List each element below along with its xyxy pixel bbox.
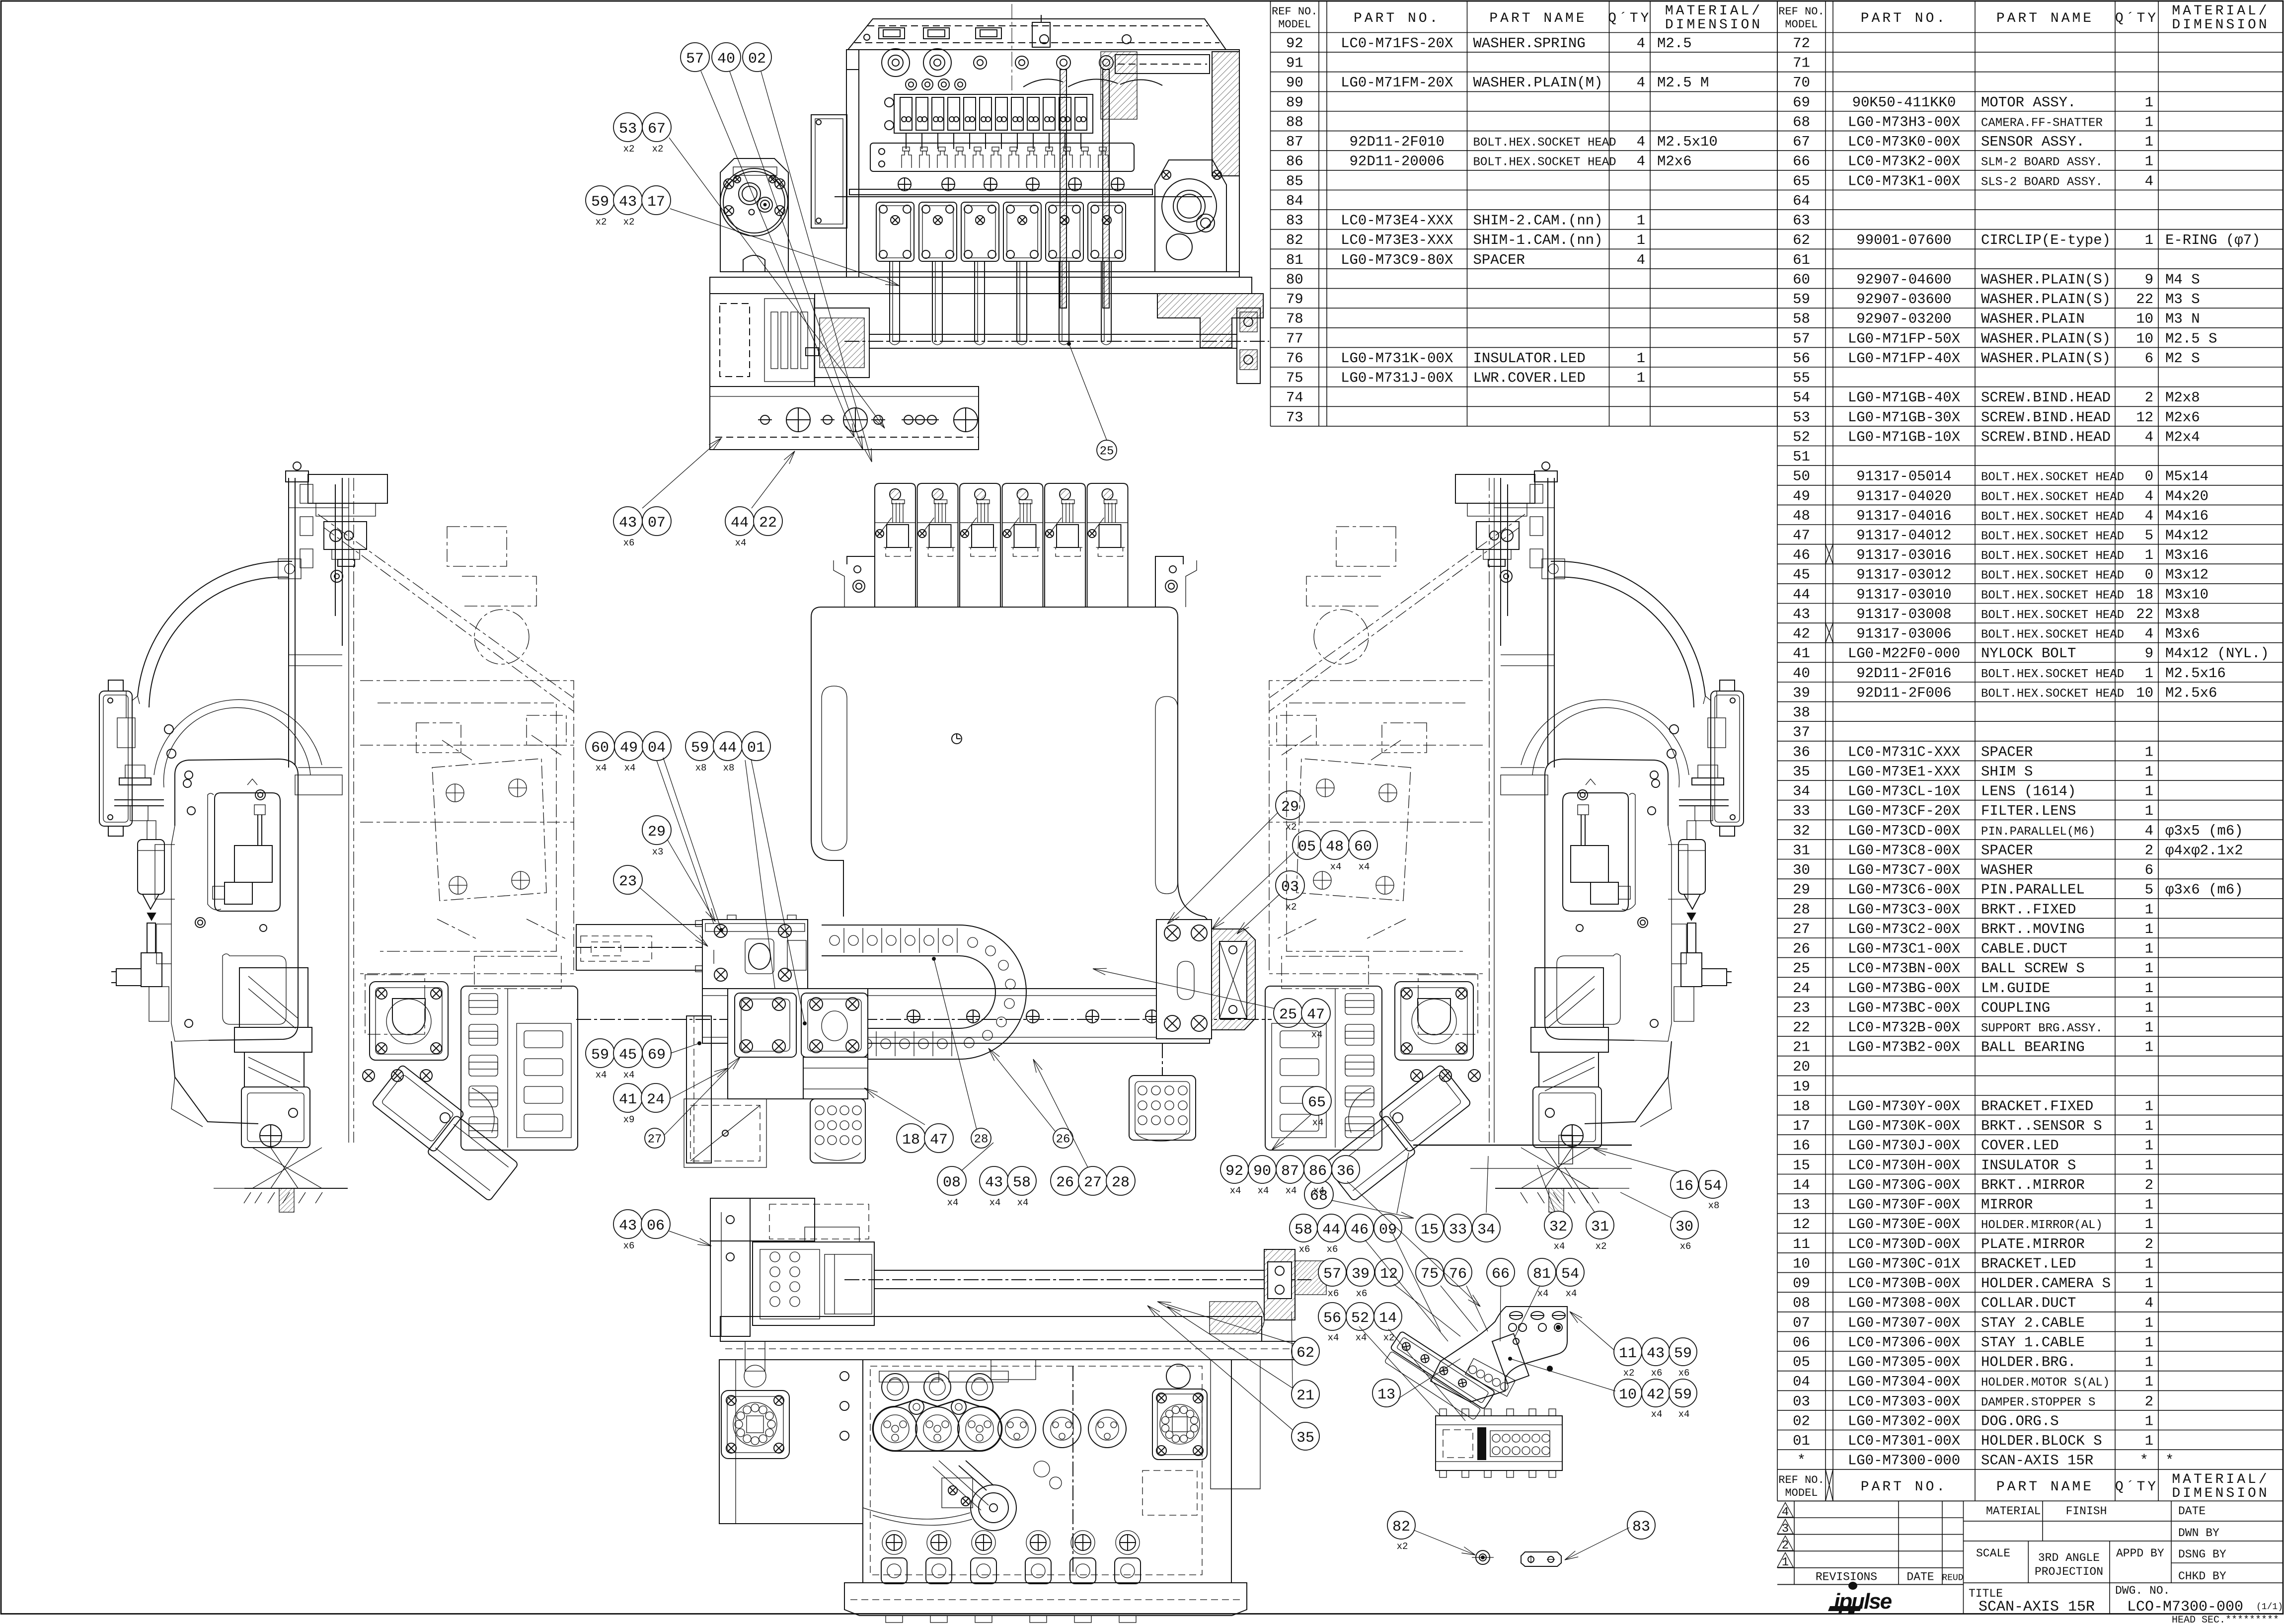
svg-text:M3x16: M3x16 — [2165, 547, 2209, 563]
svg-text:1: 1 — [2145, 134, 2153, 150]
svg-text:41: 41 — [619, 1091, 637, 1108]
svg-text:BOLT.HEX.SOCKET HEAD: BOLT.HEX.SOCKET HEAD — [1981, 490, 2124, 504]
svg-text:4: 4 — [1637, 35, 1645, 52]
svg-text:PART NO.: PART NO. — [1861, 1479, 1947, 1495]
svg-text:LG0-M73CF-20X: LG0-M73CF-20X — [1848, 803, 1960, 819]
svg-text:13: 13 — [1793, 1197, 1810, 1213]
svg-text:LG0-M73BC-00X: LG0-M73BC-00X — [1848, 1000, 1960, 1016]
svg-text:39: 39 — [1352, 1266, 1370, 1283]
svg-text:03: 03 — [1281, 879, 1299, 896]
svg-text:4: 4 — [1637, 134, 1645, 150]
svg-text:LG0-M730E-00X: LG0-M730E-00X — [1848, 1216, 1960, 1233]
svg-text:30: 30 — [1676, 1219, 1693, 1236]
main gear box — [863, 1360, 1231, 1583]
svg-text:29: 29 — [648, 824, 666, 841]
svg-text:LG0-M7300-000: LG0-M7300-000 — [1848, 1453, 1960, 1469]
svg-text:x4: x4 — [596, 1070, 607, 1081]
svg-text:91317-03012: 91317-03012 — [1856, 567, 1951, 583]
svg-text:x2: x2 — [1286, 902, 1297, 913]
svg-text:1: 1 — [1637, 232, 1645, 248]
right end bracket — [1156, 920, 1212, 1039]
svg-text:63: 63 — [1793, 213, 1810, 229]
svg-text:81: 81 — [1286, 252, 1303, 268]
svg-text:91317-03006: 91317-03006 — [1856, 626, 1951, 642]
svg-text:76: 76 — [1449, 1266, 1467, 1283]
svg-text:x9: x9 — [623, 1114, 635, 1125]
svg-text:10: 10 — [2136, 685, 2153, 701]
svg-text:LC0-M73K0-00X: LC0-M73K0-00X — [1848, 134, 1960, 150]
svg-text:65: 65 — [1793, 173, 1810, 189]
svg-text:48: 48 — [1793, 508, 1810, 524]
svg-text:BOLT.HEX.SOCKET HEAD: BOLT.HEX.SOCKET HEAD — [1981, 609, 2124, 622]
svg-text:NYLOCK BOLT: NYLOCK BOLT — [1981, 645, 2076, 662]
svg-text:x2: x2 — [1623, 1368, 1635, 1379]
svg-text:1: 1 — [2145, 783, 2153, 800]
angled mirror bar — [1382, 1331, 1495, 1421]
svg-text:45: 45 — [1793, 567, 1810, 583]
svg-text:59: 59 — [1793, 291, 1810, 308]
svg-text:70: 70 — [1793, 75, 1810, 91]
svg-text:x2: x2 — [596, 217, 607, 228]
svg-text:45: 45 — [619, 1047, 637, 1064]
svg-text:4: 4 — [1637, 75, 1645, 91]
svg-text:M4x20: M4x20 — [2165, 488, 2209, 504]
svg-text:0: 0 — [2145, 567, 2153, 583]
outer fan arc — [138, 561, 292, 696]
column lower portion / rail interface — [298, 767, 342, 768]
svg-text:4: 4 — [2145, 429, 2153, 445]
svg-text:26: 26 — [1056, 1133, 1070, 1147]
more phantom dashes — [360, 822, 574, 823]
svg-text:x4: x4 — [735, 538, 747, 548]
svg-text:PLATE.MIRROR: PLATE.MIRROR — [1981, 1236, 2085, 1252]
svg-text:1: 1 — [2145, 1118, 2153, 1134]
svg-text:18: 18 — [1793, 1098, 1810, 1115]
DETAIL: plate 83 — [1521, 1552, 1561, 1566]
svg-text:SPACER: SPACER — [1981, 842, 2033, 858]
svg-text:M3x6: M3x6 — [2165, 626, 2200, 642]
svg-text:BOLT.HEX.SOCKET HEAD: BOLT.HEX.SOCKET HEAD — [1981, 628, 2124, 642]
svg-text:58: 58 — [1013, 1174, 1031, 1191]
sub-assembly plates below carriage — [728, 989, 868, 1099]
small parts row between left block and box — [840, 1372, 849, 1381]
svg-text:1: 1 — [2145, 941, 2153, 957]
svg-text:M2.5x10: M2.5x10 — [1657, 134, 1718, 150]
six nozzle units — [875, 483, 915, 607]
svg-text:LG0-M73H3-00X: LG0-M73H3-00X — [1848, 114, 1960, 131]
svg-text:1: 1 — [2145, 1138, 2153, 1154]
svg-text:54: 54 — [1561, 1266, 1579, 1283]
svg-text:1: 1 — [2145, 1197, 2153, 1213]
bottom band + feet — [844, 1583, 1247, 1616]
svg-text:Q´TY: Q´TY — [2115, 11, 2158, 26]
svg-text:M2 S: M2 S — [2165, 350, 2200, 367]
svg-text:40: 40 — [1793, 665, 1810, 682]
svg-text:LC0-M732B-00X: LC0-M732B-00X — [1848, 1019, 1960, 1036]
svg-text:91317-03008: 91317-03008 — [1856, 606, 1951, 622]
svg-text:59: 59 — [691, 740, 709, 757]
svg-text:LG0-M71GB-30X: LG0-M71GB-30X — [1848, 409, 1960, 426]
svg-text:1: 1 — [2145, 114, 2153, 131]
svg-text:47: 47 — [1307, 1006, 1325, 1023]
svg-text:*: * — [1797, 1453, 1806, 1469]
shaft end bearing (hatched) — [1264, 1249, 1295, 1320]
svg-text:LG0-M7308-00X: LG0-M7308-00X — [1848, 1295, 1960, 1312]
svg-text:HOLDER.BLOCK S: HOLDER.BLOCK S — [1981, 1433, 2102, 1449]
revision triangle 2 — [1777, 1536, 1793, 1551]
svg-text:16: 16 — [1793, 1138, 1810, 1154]
svg-text:LC0-M7306-00X: LC0-M7306-00X — [1848, 1334, 1960, 1351]
balloons right view — [1302, 1086, 1331, 1115]
left tall plate — [686, 1016, 711, 1163]
svg-text:90K50-411KK0: 90K50-411KK0 — [1852, 94, 1956, 111]
svg-text:22: 22 — [759, 515, 777, 532]
svg-text:x4: x4 — [1678, 1409, 1690, 1420]
svg-text:4: 4 — [2145, 823, 2153, 839]
svg-text:60: 60 — [591, 740, 609, 757]
svg-text:57: 57 — [1793, 330, 1810, 347]
svg-text:APPD BY: APPD BY — [2116, 1547, 2164, 1560]
svg-text:1: 1 — [2145, 1157, 2153, 1173]
svg-text:1: 1 — [1637, 370, 1645, 387]
svg-text:BOLT.HEX.SOCKET HEAD: BOLT.HEX.SOCKET HEAD — [1981, 668, 2124, 681]
svg-text:43: 43 — [619, 1218, 637, 1235]
svg-text:STAY 2.CABLE: STAY 2.CABLE — [1981, 1315, 2085, 1331]
svg-text:1: 1 — [2145, 1275, 2153, 1292]
svg-text:15: 15 — [1793, 1157, 1810, 1173]
revision triangle 1 — [1777, 1552, 1793, 1567]
svg-text:43: 43 — [1647, 1345, 1665, 1362]
nozzle pad circles — [906, 79, 916, 90]
svg-text:x4: x4 — [596, 763, 607, 773]
svg-text:11: 11 — [1619, 1345, 1637, 1362]
inspection X mark row 46 — [1826, 544, 1833, 564]
svg-text:MODEL: MODEL — [1278, 18, 1311, 31]
left motor bracket — [720, 158, 788, 272]
svg-text:59: 59 — [1674, 1387, 1692, 1403]
svg-text:35: 35 — [1793, 764, 1810, 780]
svg-text:1: 1 — [2145, 1039, 2153, 1056]
svg-text:INSULATOR.LED: INSULATOR.LED — [1473, 350, 1586, 367]
right flower pad — [1166, 1364, 1190, 1388]
svg-text:79: 79 — [1286, 291, 1303, 308]
svg-text:φ3x6 (m6): φ3x6 (m6) — [2165, 882, 2243, 898]
svg-text:09: 09 — [1793, 1275, 1810, 1292]
body lower-left diagonal — [171, 1041, 258, 1124]
svg-text:x4: x4 — [1312, 1117, 1324, 1128]
svg-text:LG0-M730F-00X: LG0-M730F-00X — [1848, 1197, 1960, 1213]
svg-text:62: 62 — [1793, 232, 1810, 248]
stage hatch baseline — [214, 1188, 244, 1189]
svg-text:LG0-M73C6-00X: LG0-M73C6-00X — [1848, 882, 1960, 898]
svg-text:M5x14: M5x14 — [2165, 468, 2209, 485]
svg-text:4: 4 — [1782, 1506, 1789, 1519]
svg-text:DIMENSION: DIMENSION — [1665, 17, 1762, 33]
svg-text:49: 49 — [620, 740, 638, 757]
long rail — [702, 989, 1210, 1043]
svg-text:FINISH: FINISH — [2066, 1505, 2107, 1518]
screws on body — [185, 771, 193, 779]
left wing block — [719, 1360, 863, 1524]
svg-text:69: 69 — [1793, 94, 1810, 111]
main pulleys with belt — [873, 1407, 917, 1451]
svg-text:1: 1 — [1637, 213, 1645, 229]
svg-text:10: 10 — [2136, 330, 2153, 347]
bolts row — [898, 178, 911, 191]
svg-text:54: 54 — [1793, 389, 1810, 406]
extra density: small fittings column — [117, 718, 135, 748]
svg-text:17: 17 — [647, 194, 665, 211]
svg-text:1: 1 — [2145, 232, 2153, 248]
svg-text:LG0-M730G-00X: LG0-M730G-00X — [1848, 1177, 1960, 1193]
svg-text:x4: x4 — [623, 1070, 635, 1081]
svg-text:22: 22 — [2136, 291, 2153, 308]
svg-text:32: 32 — [1793, 823, 1810, 839]
bottom plate with holes — [710, 387, 979, 450]
svg-text:4: 4 — [2145, 1295, 2153, 1312]
svg-text:LC0-M71FS-20X: LC0-M71FS-20X — [1341, 35, 1453, 52]
svg-text:LG0-M71GB-40X: LG0-M71GB-40X — [1848, 389, 1960, 406]
svg-text:92: 92 — [1286, 35, 1303, 52]
svg-text:M4 S: M4 S — [2165, 271, 2200, 288]
svg-text:91: 91 — [1286, 55, 1303, 72]
right step bracket (hatched) — [1157, 294, 1263, 348]
svg-text:SCAN-AXIS 15R: SCAN-AXIS 15R — [1979, 1599, 2095, 1616]
bolts row bottom assembly — [363, 1070, 375, 1082]
svg-text:COLLAR.DUCT: COLLAR.DUCT — [1981, 1295, 2076, 1312]
revision triangle 4 — [1777, 1502, 1793, 1517]
small circles on arc path — [164, 725, 173, 734]
svg-text:MATERIAL/: MATERIAL/ — [2172, 1472, 2269, 1487]
svg-text:HEAD SEC.*********: HEAD SEC.********* — [2172, 1615, 2279, 1624]
svg-text:21: 21 — [1793, 1039, 1810, 1056]
svg-text:17: 17 — [1793, 1118, 1810, 1134]
right motor bracket — [1155, 160, 1226, 272]
svg-text:73: 73 — [1286, 409, 1303, 426]
svg-text:40: 40 — [717, 51, 735, 68]
svg-text:90: 90 — [1253, 1163, 1271, 1180]
svg-text:LG0-M730C-01X: LG0-M730C-01X — [1848, 1255, 1960, 1272]
svg-text:34: 34 — [1793, 783, 1810, 800]
svg-text:10: 10 — [2136, 311, 2153, 327]
svg-text:1: 1 — [2145, 1334, 2153, 1351]
main body — [811, 607, 1178, 880]
svg-text:1: 1 — [2145, 1354, 2153, 1371]
svg-text:59: 59 — [1674, 1345, 1692, 1362]
svg-text:91317-04020: 91317-04020 — [1856, 488, 1951, 504]
svg-text:LC0-M7303-00X: LC0-M7303-00X — [1848, 1393, 1960, 1410]
svg-text:21: 21 — [1296, 1388, 1314, 1404]
svg-text:DATE: DATE — [1906, 1570, 1934, 1583]
svg-text:33: 33 — [1449, 1222, 1467, 1238]
svg-text:1: 1 — [2145, 1413, 2153, 1429]
svg-text:HOLDER.BRG.: HOLDER.BRG. — [1981, 1354, 2076, 1371]
svg-text:46: 46 — [1793, 547, 1810, 563]
svg-text:SHIM-2.CAM.(nn): SHIM-2.CAM.(nn) — [1473, 213, 1603, 229]
svg-text:1: 1 — [2145, 1000, 2153, 1016]
svg-text:92D11-20006: 92D11-20006 — [1350, 154, 1445, 170]
svg-text:0: 0 — [2145, 468, 2153, 485]
svg-text:44: 44 — [1793, 586, 1810, 603]
svg-text:67: 67 — [1793, 134, 1810, 150]
svg-text:MODEL: MODEL — [1785, 18, 1818, 31]
svg-text:74: 74 — [1286, 389, 1303, 406]
svg-text:SCREW.BIND.HEAD: SCREW.BIND.HEAD — [1981, 409, 2111, 426]
svg-text:x8: x8 — [1708, 1200, 1720, 1211]
svg-text:33: 33 — [1793, 803, 1810, 819]
svg-text:58: 58 — [1295, 1222, 1312, 1238]
svg-text:x4: x4 — [1017, 1197, 1029, 1208]
svg-text:x4: x4 — [1230, 1185, 1241, 1196]
phantom machine frame (dash-dot) — [348, 478, 349, 1143]
svg-text:04: 04 — [648, 740, 666, 757]
svg-text:DAMPER.STOPPER S: DAMPER.STOPPER S — [1981, 1396, 2095, 1409]
svg-text:27: 27 — [648, 1133, 662, 1147]
wide band — [720, 1316, 1262, 1341]
svg-text:26: 26 — [1056, 1174, 1074, 1191]
svg-text:PROJECTION: PROJECTION — [2035, 1565, 2103, 1578]
connector row block — [870, 143, 1134, 171]
rollers — [882, 49, 910, 77]
probe / sensor parts left — [125, 765, 145, 778]
svg-text:34: 34 — [1477, 1222, 1495, 1238]
upper cross rail — [1115, 55, 1210, 74]
svg-text:x4: x4 — [1566, 1288, 1577, 1299]
svg-text:44: 44 — [719, 740, 737, 757]
svg-text:x6: x6 — [1678, 1368, 1690, 1379]
svg-text:1: 1 — [2145, 980, 2153, 997]
svg-text:66: 66 — [1492, 1266, 1510, 1283]
belt path — [873, 1399, 1002, 1451]
svg-text:DWG. NO.: DWG. NO. — [2115, 1584, 2170, 1597]
svg-text:STAY 1.CABLE: STAY 1.CABLE — [1981, 1334, 2085, 1351]
svg-text:51: 51 — [1793, 449, 1810, 465]
svg-text:x2: x2 — [623, 144, 635, 155]
svg-text:WASHER.PLAIN(S): WASHER.PLAIN(S) — [1981, 330, 2111, 347]
svg-text:36: 36 — [1337, 1163, 1355, 1180]
svg-text:4: 4 — [2145, 488, 2153, 504]
balloons center view — [586, 732, 614, 761]
svg-text:BOLT.HEX.SOCKET HEAD: BOLT.HEX.SOCKET HEAD — [1981, 510, 2124, 524]
motor assembly (right) — [370, 982, 448, 1060]
svg-text:84: 84 — [1286, 193, 1303, 209]
svg-text:(1/1): (1/1) — [2256, 1602, 2283, 1612]
svg-text:72: 72 — [1793, 35, 1810, 52]
svg-text:31: 31 — [1793, 842, 1810, 858]
svg-text:82: 82 — [1286, 232, 1303, 248]
svg-text:LC0-M73K1-00X: LC0-M73K1-00X — [1848, 173, 1960, 189]
svg-text:77: 77 — [1286, 330, 1303, 347]
svg-text:60: 60 — [1793, 271, 1810, 288]
chain anchor — [844, 1024, 858, 1063]
BOTTOM VIEW — [710, 1198, 1326, 1623]
balloons bottom view — [613, 1210, 642, 1238]
svg-text:REVISIONS: REVISIONS — [1816, 1570, 1877, 1583]
svg-text:1: 1 — [2145, 764, 2153, 780]
svg-text:4: 4 — [1637, 154, 1645, 170]
svg-text:LC0-M730D-00X: LC0-M730D-00X — [1848, 1236, 1960, 1252]
svg-text:31: 31 — [1591, 1219, 1609, 1236]
svg-text:SCREW.BIND.HEAD: SCREW.BIND.HEAD — [1981, 389, 2111, 406]
svg-text:LG0-M71FP-50X: LG0-M71FP-50X — [1848, 330, 1960, 347]
svg-text:x6: x6 — [1327, 1244, 1338, 1255]
svg-text:82: 82 — [1392, 1519, 1410, 1536]
svg-text:5: 5 — [2145, 528, 2153, 544]
svg-text:03: 03 — [1793, 1393, 1810, 1410]
svg-text:x2: x2 — [1596, 1241, 1607, 1252]
head body outline — [846, 50, 1239, 277]
svg-text:LWR.COVER.LED: LWR.COVER.LED — [1473, 370, 1586, 387]
svg-text:57: 57 — [686, 51, 704, 68]
svg-text:48: 48 — [1326, 839, 1344, 855]
svg-text:BOLT.HEX.SOCKET HEAD: BOLT.HEX.SOCKET HEAD — [1473, 156, 1616, 169]
svg-text:LG0-M731J-00X: LG0-M731J-00X — [1341, 370, 1453, 387]
svg-text:LG0-M73CL-10X: LG0-M73CL-10X — [1848, 783, 1960, 800]
svg-text:01: 01 — [747, 740, 765, 757]
svg-text:x4: x4 — [1330, 861, 1342, 872]
svg-text:HOLDER.MIRROR(AL): HOLDER.MIRROR(AL) — [1981, 1219, 2103, 1232]
center line vertical — [1011, 4, 1012, 94]
svg-text:HOLDER.MOTOR S(AL): HOLDER.MOTOR S(AL) — [1981, 1376, 2110, 1390]
svg-text:LM.GUIDE: LM.GUIDE — [1981, 980, 2050, 997]
svg-text:M2x6: M2x6 — [1657, 154, 1692, 170]
svg-text:LG0-M71FP-40X: LG0-M71FP-40X — [1848, 350, 1960, 367]
svg-text:6: 6 — [2145, 350, 2153, 367]
svg-text:LC0-M730B-00X: LC0-M730B-00X — [1848, 1275, 1960, 1292]
svg-text:78: 78 — [1286, 311, 1303, 327]
DETAIL: sensor bracket assembly — [1382, 1307, 1567, 1421]
svg-text:15: 15 — [1421, 1222, 1439, 1238]
svg-text:04: 04 — [1793, 1374, 1810, 1390]
svg-text:LENS (1614): LENS (1614) — [1981, 783, 2076, 800]
svg-text:x6: x6 — [1328, 1288, 1339, 1299]
svg-text:LG0-M71GB-10X: LG0-M71GB-10X — [1848, 429, 1960, 445]
svg-text:x6: x6 — [1299, 1244, 1310, 1255]
svg-text:DOG.ORG.S: DOG.ORG.S — [1981, 1413, 2059, 1429]
svg-text:47: 47 — [1793, 528, 1810, 544]
extra internals main box — [879, 1371, 939, 1382]
svg-text:WASHER.PLAIN(S): WASHER.PLAIN(S) — [1981, 350, 2111, 367]
svg-text:52: 52 — [1351, 1310, 1369, 1327]
svg-text:13: 13 — [1377, 1387, 1395, 1403]
svg-text:10: 10 — [1793, 1255, 1810, 1272]
svg-text:4: 4 — [1637, 252, 1645, 268]
svg-text:M2.5 M: M2.5 M — [1657, 75, 1709, 91]
svg-text:WASHER.PLAIN(M): WASHER.PLAIN(M) — [1473, 75, 1603, 91]
svg-text:6: 6 — [2145, 862, 2153, 878]
svg-text:LG0-M73C9-80X: LG0-M73C9-80X — [1341, 252, 1453, 268]
svg-text:LC0-M73BN-00X: LC0-M73BN-00X — [1848, 960, 1960, 977]
svg-text:LG0-M73C1-00X: LG0-M73C1-00X — [1848, 941, 1960, 957]
svg-text:x4: x4 — [1359, 861, 1370, 872]
hatched end cap — [1212, 929, 1255, 1030]
svg-text:LG0-M73B2-00X: LG0-M73B2-00X — [1848, 1039, 1960, 1056]
svg-text:CHKD BY: CHKD BY — [2178, 1570, 2226, 1583]
svg-text:MATERIAL: MATERIAL — [1986, 1505, 2041, 1518]
svg-text:18: 18 — [2136, 586, 2153, 603]
svg-text:BRKT..MIRROR: BRKT..MIRROR — [1981, 1177, 2085, 1193]
svg-text:10: 10 — [1619, 1387, 1637, 1403]
svg-text:05: 05 — [1298, 839, 1316, 855]
svg-text:16: 16 — [1676, 1178, 1693, 1195]
right table bottom header — [1777, 1469, 2283, 1501]
svg-text:59: 59 — [591, 1047, 609, 1064]
svg-text:BOLT.HEX.SOCKET HEAD: BOLT.HEX.SOCKET HEAD — [1473, 136, 1616, 150]
svg-text:1: 1 — [2145, 921, 2153, 937]
right edge block — [1211, 1360, 1260, 1489]
svg-text:1: 1 — [2145, 665, 2153, 682]
svg-text:BOLT.HEX.SOCKET HEAD: BOLT.HEX.SOCKET HEAD — [1981, 471, 2124, 484]
